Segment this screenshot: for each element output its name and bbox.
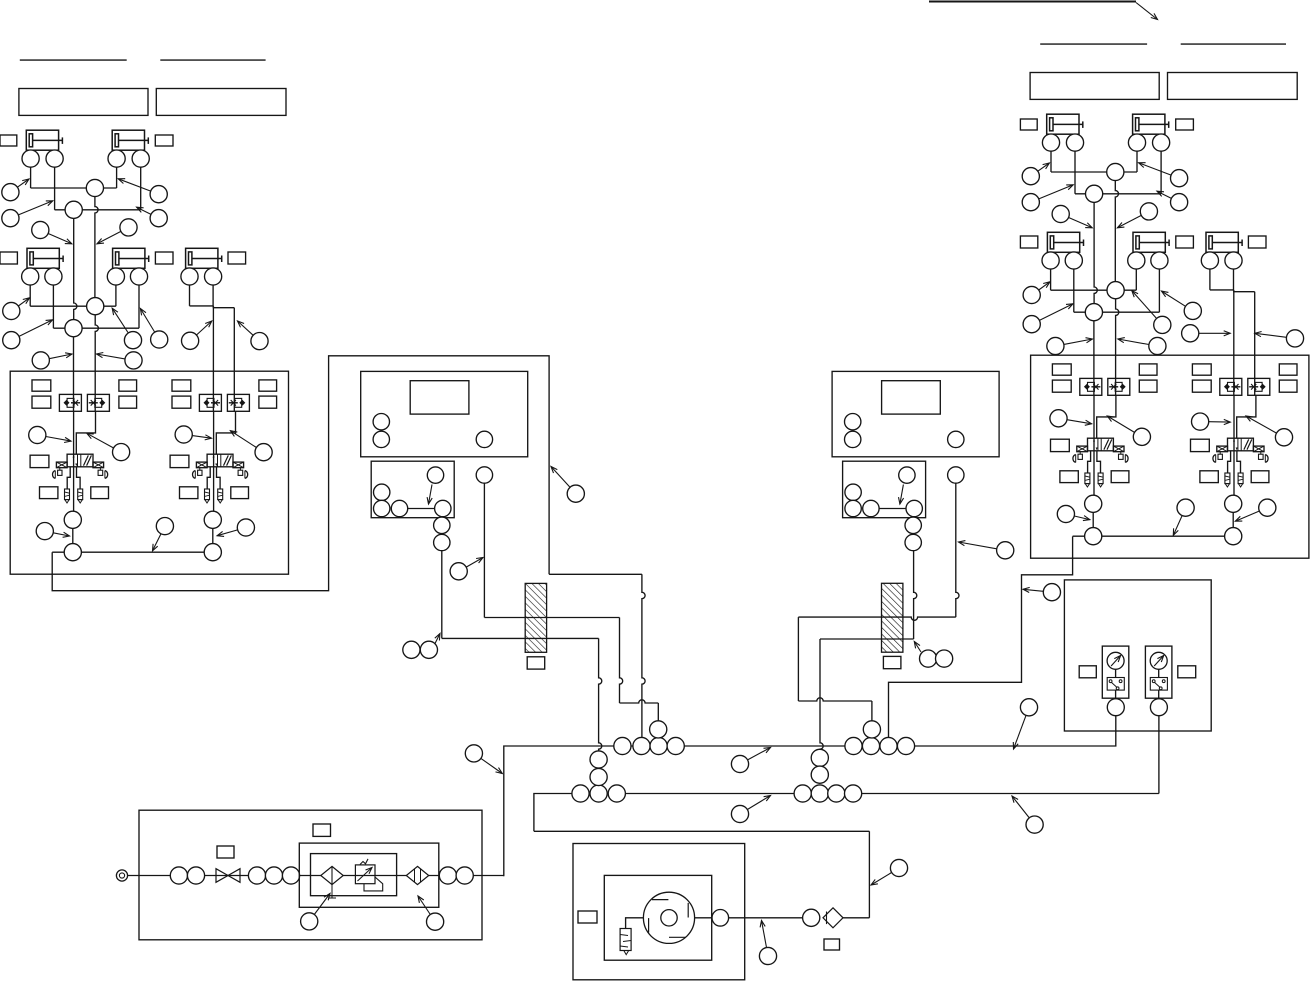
tag plate L1 muffler tag 1 (40, 487, 58, 499)
port circles cylinder R1 (1042, 134, 1083, 194)
tag plate L3 (0, 252, 17, 264)
manifold line cylinder L5 (190, 306, 235, 308)
junction node R row1 lower (1086, 185, 1103, 202)
flow control valve L1-1 (59, 394, 81, 411)
junction node L row1 lower (65, 201, 82, 218)
tag plate check valve tag (824, 939, 840, 950)
exhaust pipe L1 right (77, 467, 81, 489)
junction block L (371, 461, 454, 518)
muffler L1-1 (65, 489, 70, 503)
balloon L r1-2 (2, 201, 53, 227)
cylinder R3 (1047, 232, 1083, 252)
gauge panel enclosure (1064, 580, 1211, 731)
air filter R (882, 583, 903, 652)
header upper branch node R (863, 721, 880, 738)
pilot section left of R2 (1213, 446, 1228, 462)
outlet pipe L2 (212, 511, 214, 552)
manifold line L row2 upper (30, 305, 116, 307)
controller display L (410, 381, 469, 414)
balloon loop L (551, 467, 584, 503)
block node R-b (845, 500, 861, 516)
pipe suction (626, 918, 644, 929)
pipe filter R upper drop (797, 617, 799, 701)
balloon L vb-5 (36, 523, 69, 540)
legend box R2 (1168, 73, 1298, 100)
cylinder L5 (186, 248, 222, 268)
balloon lubricator (418, 896, 444, 930)
flow control valve R2-1 (1220, 378, 1242, 395)
tag plate compressor tag (578, 911, 597, 923)
pipe from flow control R2-2 to valve (1237, 395, 1256, 438)
pipe check valve to riser (843, 917, 869, 919)
pipe FRL main (299, 875, 439, 877)
controller node L-2 (373, 431, 389, 447)
outlet pipe L1 (72, 511, 74, 552)
muffler R1-1 (1085, 473, 1090, 487)
header lower node 4 (794, 785, 811, 802)
tag plate R2 valve tag (1191, 439, 1210, 451)
tag plate R2 (1176, 119, 1194, 130)
junction node R row1 upper (1107, 163, 1124, 180)
pressure gauge unit 1 (1102, 646, 1129, 698)
cylinder R4 (1133, 232, 1169, 252)
junction node L row2 lower (65, 320, 82, 337)
muffler L1-2 (78, 489, 83, 503)
balloon R vb-1 (1050, 410, 1092, 427)
muffler L2-2 (218, 489, 223, 503)
manifold line cylinder R5 (1210, 290, 1255, 292)
compressor motor (643, 892, 694, 943)
pipe drop to header node L (657, 703, 659, 721)
manifold line R row2 lower (1074, 311, 1160, 313)
exhaust pipe R1 right (1097, 451, 1101, 473)
air prep node 3 (248, 867, 265, 884)
pipe right box outlet to gauge header (889, 536, 1073, 737)
flow control valve R1-2 (1108, 378, 1130, 395)
tag plate gauge tag 2 (1178, 666, 1196, 678)
tag plate shutoff valve tag (217, 846, 234, 858)
balloon header lower mid (731, 796, 770, 823)
cylinder R5 (1206, 232, 1242, 252)
muffler R1-2 (1098, 473, 1103, 487)
outlet node L1 upper (64, 511, 81, 528)
air prep node 2 (187, 867, 204, 884)
balloon R r2-5 (1182, 325, 1231, 342)
cylinder L3 (27, 248, 63, 268)
junction node L row2 upper (87, 298, 104, 315)
cylinder R2 (1133, 114, 1169, 134)
flow control valve R2-2 (1248, 378, 1270, 395)
controller node R-1 (845, 414, 861, 430)
riser pipe Lb (74, 210, 77, 320)
tag plate L4 (155, 252, 173, 264)
outlet header R (1073, 535, 1234, 537)
header lower node 2 (590, 785, 607, 802)
controller outlet node R (948, 467, 964, 483)
tag plate R1 (1020, 119, 1037, 130)
pipe compressor riser (868, 831, 870, 918)
balloon L r1-4 (137, 207, 168, 227)
pipe controller L outlet drop (483, 483, 485, 617)
air prep enclosure (139, 810, 482, 940)
port circles cylinder R5 (1201, 252, 1242, 290)
balloon L r2-2 (3, 320, 53, 349)
air filter L (525, 583, 546, 652)
riser pipe Rb (1094, 194, 1097, 304)
block node R-top (899, 467, 916, 504)
tag plate L2 muffler tag 1 (180, 487, 198, 499)
exhaust pipe R2 left (1228, 451, 1231, 473)
discharge node (803, 909, 820, 926)
exhaust pipe R2 right (1237, 451, 1241, 473)
outlet node L2 upper (204, 511, 221, 528)
balloon filter L pair (403, 634, 440, 659)
header lower node 1 (572, 785, 589, 802)
tag plate L2 muffler tag 2 (231, 487, 249, 499)
shutoff valve (216, 869, 240, 883)
balloon filter element (301, 894, 330, 931)
controller enclosure L (361, 371, 528, 456)
tag plate L2 port D (259, 396, 277, 408)
balloon right outlet pipe (1023, 584, 1061, 601)
legend box L1 (19, 89, 148, 116)
pipe controller R to filter R (914, 551, 917, 639)
port circles cylinder L5 (181, 268, 222, 306)
block node L-top (427, 467, 444, 504)
pilot section right of R1 (1113, 446, 1128, 462)
balloon R r1-1 (1022, 163, 1049, 185)
manifold line L row1 lower (55, 209, 141, 211)
tag plate R1 muffler tag 2 (1111, 471, 1129, 483)
pipe filter L upper drop (620, 618, 623, 704)
tag plate L2 port A (172, 380, 191, 391)
block node L-a (374, 484, 390, 500)
tag plate R2 port D (1279, 380, 1297, 392)
outlet node R1 lower (1085, 528, 1102, 545)
main header upper (504, 716, 1116, 876)
riser pipe Ra (1115, 172, 1118, 282)
controller node L-3 (476, 431, 492, 447)
supply pipe through valve L1 (73, 411, 75, 511)
lubricator element (406, 866, 428, 884)
header upper node 6 (862, 737, 879, 754)
tag plate R1 valve tag (1051, 439, 1070, 451)
air prep node 5 (282, 867, 299, 884)
balloon header upper mid (731, 748, 770, 773)
balloon R r2-1 (1023, 282, 1050, 304)
block outlet node R-2 (905, 534, 921, 550)
tag plate R1 port C (1139, 364, 1157, 375)
header lower stack node 3 (811, 749, 828, 766)
cylinder R1 (1047, 114, 1083, 134)
balloon L r2-5 (182, 321, 212, 349)
balloon R vb-2 (1107, 416, 1150, 445)
balloon L vb-1 (29, 426, 71, 443)
flow control valve L2-1 (199, 394, 221, 411)
tag plate L2 port C (259, 380, 277, 391)
balloon L r1-6 (97, 219, 137, 244)
tag plate R3 (1020, 236, 1037, 248)
revision pointer line top right (929, 2, 1158, 20)
5/2 directional valve L2 (207, 454, 233, 467)
balloon gauge feed (1013, 699, 1037, 749)
pilot section left of L2 (193, 462, 208, 478)
drop pipe R5-a (1233, 290, 1235, 395)
balloon R vb-3 (1192, 413, 1231, 430)
muffler L2-1 (205, 489, 210, 503)
pipe from flow control L1-2 to valve (76, 411, 95, 454)
block link R (879, 508, 906, 510)
junction node R row2 upper (1107, 282, 1124, 299)
tag plate L1 valve tag (30, 455, 49, 467)
cylinder L1 (26, 130, 62, 150)
balloon L r2-4 (140, 309, 167, 349)
compressor outlet node (712, 910, 729, 927)
riser pipe La (95, 188, 98, 298)
tag plate filter L tag (527, 657, 545, 669)
tag plate L1 port C (119, 380, 137, 391)
tag plate R1 port A (1052, 364, 1071, 375)
block node L-d (435, 500, 451, 516)
balloon L r1-1 (2, 179, 29, 201)
header upper node 1 (614, 737, 631, 754)
controller outlet node L (476, 467, 492, 483)
port circles cylinder L3 (22, 268, 62, 328)
compressor inner box (604, 875, 711, 960)
tag plate L5 (228, 252, 246, 264)
balloon R r2-6 (1255, 330, 1304, 347)
cylinder L2 (112, 130, 148, 150)
legend box L2 (156, 89, 286, 116)
pilot section right of L2 (233, 462, 248, 478)
supply pipe through valve R1 (1093, 395, 1095, 495)
balloon R r2-4 (1162, 291, 1202, 319)
balloon R r2-8 (1118, 337, 1166, 354)
valve manifold box R (1031, 355, 1309, 558)
drop pipe L5-a (212, 306, 214, 411)
pipe valve box L outlet to loop (52, 356, 549, 591)
controller enclosure R (832, 371, 999, 456)
supply pipe through valve L2 (213, 411, 215, 511)
5/2 directional valve R2 (1228, 438, 1254, 451)
title underline L1 (20, 59, 127, 61)
tag plate R2 port A (1192, 364, 1211, 375)
header upper node 5 (845, 737, 862, 754)
pipe filter L lower drop (599, 638, 602, 751)
riser Rb into valve box (1093, 321, 1095, 396)
pipe from flow control L2-2 to valve (216, 411, 235, 454)
tag plate filter R tag (883, 656, 901, 668)
tag plate R2 port B (1192, 380, 1211, 392)
header lower stack node 2 (590, 768, 607, 785)
suction filter (620, 929, 631, 955)
pilot section right of R2 (1253, 446, 1268, 462)
outlet node R2 lower (1225, 528, 1242, 545)
balloon R r1-3 (1139, 163, 1188, 187)
air prep node 7 (456, 867, 473, 884)
tag plate L2 port B (172, 396, 191, 408)
tag plate FRL tag (313, 824, 331, 836)
pipe filter L lower lateral (442, 637, 599, 639)
filter element (321, 866, 343, 898)
controller display R (882, 381, 941, 414)
junction block R (843, 461, 926, 518)
block node R-c (863, 500, 879, 516)
muffler R2-2 (1238, 473, 1243, 487)
junction node R row2 lower (1085, 304, 1102, 321)
tag plate L1 port B (32, 396, 51, 408)
manifold line R row1 upper (1051, 171, 1137, 173)
air prep node 1 (170, 867, 187, 884)
balloon R r1-5 (1052, 205, 1092, 227)
tag plate R2 port C (1279, 364, 1297, 375)
header upper node 7 (880, 737, 897, 754)
balloon L r2-6 (238, 321, 269, 350)
balloon header upper left (465, 745, 502, 774)
tag plate L1 (0, 135, 17, 146)
balloon R vb-6 (1173, 499, 1194, 535)
balloon R r2-7 (1047, 337, 1093, 354)
tag plate L2 valve tag (170, 455, 189, 467)
header lower node 6 (828, 785, 845, 802)
balloon R r1-2 (1022, 185, 1073, 211)
pipe from flow control R1-2 to valve (1097, 395, 1116, 438)
flow control valve L2-2 (227, 394, 249, 411)
tag plate L1 port D (119, 396, 137, 408)
title underline R1 (1040, 43, 1147, 45)
pipe loop L horizontal (549, 573, 642, 575)
pipe air prep main (128, 875, 300, 877)
balloon compressor riser (871, 859, 908, 885)
muffler R2-1 (1225, 473, 1230, 487)
pipe filter R lower lateral (820, 638, 914, 640)
balloon R vb-4 (1246, 416, 1293, 446)
block link L (408, 508, 435, 510)
balloon R r1-6 (1117, 203, 1157, 228)
riser La into valve box (95, 315, 98, 412)
balloon controller R outlet (959, 541, 1014, 559)
block node L-b (374, 500, 390, 516)
pressure gauge unit 2 (1145, 646, 1172, 698)
header upper node 2 (633, 737, 650, 754)
tag plate R1 port B (1052, 380, 1071, 392)
balloon filter R pair (914, 642, 952, 668)
header upper node 4 (667, 737, 684, 754)
balloon L vb-4 (230, 431, 272, 461)
balloon header lower right (1012, 796, 1043, 833)
supply pipe through valve R2 (1233, 395, 1235, 495)
exhaust pipe L1 left (67, 467, 70, 489)
header lower node 5 (811, 785, 828, 802)
FRL outer box (299, 843, 439, 907)
tag plate L1 port A (32, 380, 51, 391)
riser Ra into valve box (1116, 299, 1119, 396)
tag plate R1 muffler tag 1 (1060, 471, 1078, 483)
cylinder L4 (113, 248, 149, 268)
FRL inner box (311, 854, 397, 896)
pipe filter R lower drop (820, 639, 823, 749)
pipe controller R outlet drop (956, 483, 959, 617)
balloon R r1-4 (1157, 191, 1188, 211)
legend box R1 (1030, 73, 1159, 100)
balloon L r1-5 (32, 221, 72, 243)
manifold line R row1 lower (1075, 193, 1161, 195)
balloon L vb-7 (217, 519, 254, 537)
balloon L vb-6 (153, 518, 174, 551)
block node R-d (906, 500, 922, 516)
balloon L r2-7 (32, 352, 72, 369)
block outlet node R-1 (905, 517, 921, 533)
balloon compressor outlet (759, 921, 776, 965)
outlet node R1 upper (1085, 495, 1102, 512)
balloon L r2-8 (97, 352, 143, 369)
port circles cylinder L1 (22, 150, 63, 210)
pipe filter R upper lateral (798, 617, 955, 620)
manifold line L row2 lower (53, 327, 139, 329)
header lower node 7 (845, 785, 862, 802)
header upper branch node (650, 721, 667, 738)
gauge 2 node (1150, 699, 1167, 716)
pilot section left of R1 (1073, 446, 1088, 462)
pipe loop L drop to header (642, 574, 645, 737)
block outlet node L-2 (434, 534, 450, 550)
compressor enclosure (573, 844, 745, 980)
block outlet node L-1 (434, 517, 450, 533)
balloon L r2-3 (112, 308, 141, 349)
title underline R2 (1181, 43, 1286, 45)
gauge 1 node (1107, 699, 1124, 716)
air prep node 6 (439, 867, 456, 884)
outlet pipe R1 (1092, 495, 1094, 536)
block node L-c (391, 500, 407, 516)
pipe filter L link to header (620, 700, 659, 703)
balloon R r2-3 (1132, 291, 1171, 334)
outlet pipe R2 (1232, 495, 1234, 536)
manifold line L row1 upper (31, 187, 117, 189)
air prep node 4 (265, 867, 282, 884)
inlet port (116, 870, 127, 881)
pipe controller L to filter top port (441, 551, 443, 639)
balloon L vb-3 (175, 426, 211, 443)
pipe gauge 2 to lower header (1158, 716, 1160, 794)
tag plate R4 (1176, 236, 1194, 248)
balloon controller L outlet (450, 558, 483, 580)
header lower stack node 1 (590, 751, 607, 768)
port circles cylinder L2 (108, 150, 149, 210)
balloon L r2-1 (3, 298, 30, 320)
drop pipe R5-b (1254, 292, 1256, 396)
balloon R r2-2 (1023, 304, 1073, 333)
pilot section left of L1 (53, 462, 68, 478)
pipe compressor discharge (695, 917, 712, 919)
tag plate R2 muffler tag 1 (1200, 471, 1218, 483)
header lower stack node 4 (811, 766, 828, 783)
controller node R-3 (948, 431, 964, 447)
block node R-a (845, 484, 861, 500)
header upper node 8 (897, 737, 914, 754)
balloon R vb-5 (1057, 505, 1090, 522)
port circles cylinder R4 (1128, 252, 1168, 312)
tag plate R5 (1248, 236, 1266, 248)
outlet header L (52, 551, 213, 553)
balloon R vb-7 (1235, 499, 1276, 521)
port circles cylinder L4 (107, 268, 147, 328)
controller node L-1 (373, 414, 389, 430)
flow control valve L1-2 (87, 394, 109, 411)
tag plate R2 muffler tag 2 (1251, 471, 1269, 483)
exhaust pipe L2 left (207, 467, 210, 489)
pipe air prep outlet (473, 875, 504, 877)
